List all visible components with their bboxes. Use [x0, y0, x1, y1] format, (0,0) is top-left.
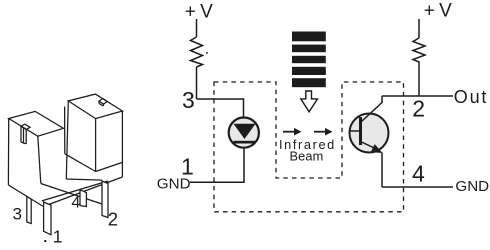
phototransistor Q1 emitter lead: [362, 142, 377, 149]
resistor (right, pull-up): [413, 38, 425, 64]
photointerrupter 3D body: bridge front top edge: [66, 179, 102, 180]
photointerrupter 3D body: polarity notch on right tower top: [99, 99, 107, 106]
hollow down arrow (object moves down): [301, 91, 318, 112]
wire node2 down to collector: [381, 96, 383, 103]
pin 3 of 3D body: [27, 196, 31, 223]
svg-text:Out: Out: [454, 87, 488, 107]
photointerrupter 3D body: body front bottom edge: [41, 184, 102, 205]
LED D1 triangle (anode): [234, 124, 256, 139]
svg-text:3: 3: [182, 87, 195, 113]
wire resistor to node 2 / Out: [418, 64, 420, 96]
svg-text:2: 2: [412, 95, 425, 121]
wire node 4 to GND: [382, 186, 453, 188]
photointerrupter 3D body: left tower front-left vertical edge: [7, 119, 9, 186]
resistor (left, LED current limit): [191, 37, 203, 67]
pin 4 of 3D body: [80, 190, 86, 207]
photointerrupter 3D body: step top front edge: [42, 181, 108, 201]
wire +V to resistor R-left: [196, 19, 198, 37]
dot under pin 1: [44, 240, 46, 242]
photointerrupter 3D body: left tower front-right vertical edge (slot left): [38, 136, 41, 183]
photointerrupter 3D body: step top-left edge: [8, 185, 43, 207]
infrared beam arrow (left): [283, 128, 333, 136]
wire node 2 horizontal to Out: [382, 95, 453, 97]
wire node 3 to LED anode: [197, 99, 244, 124]
photointerrupter 3D body: polarity tab on left tower top: [21, 124, 30, 144]
svg-text:+V: +V: [424, 0, 456, 21]
photointerrupter 3D body: slot back vertical edge: [64, 107, 66, 154]
photointerrupter 3D body: right tower front-left vertical edge: [66, 101, 68, 179]
photointerrupter 3D body: bridge top back edge: [65, 154, 96, 172]
phototransistor Q1 collector lead: [362, 103, 383, 122]
svg-text:2: 2: [108, 209, 118, 230]
phototransistor Q1 emitter arrowhead: [371, 144, 383, 153]
wire emitter down to node 4: [381, 153, 383, 188]
phototransistor Q1 base bar: [359, 117, 362, 145]
phototransistor Q1 circle: [350, 114, 389, 153]
svg-text:4: 4: [412, 161, 425, 187]
wire +V to resistor R-right: [418, 19, 420, 38]
svg-text:+V: +V: [185, 1, 217, 22]
svg-text:4: 4: [71, 194, 80, 211]
dashed sensor outline (U-shape): [214, 82, 404, 212]
photointerrupter 3D body: flange bottom front edge: [43, 177, 122, 207]
LED D1 circle: [229, 118, 259, 148]
interrupter object (stack of black bars): [292, 32, 326, 88]
svg-text:1: 1: [53, 227, 63, 247]
infrared beam arrow (right): [314, 131, 326, 133]
pin 2 of 3D body: [102, 181, 108, 218]
photointerrupter 3D body: right tower front-right vertical edge: [95, 119, 97, 172]
photointerrupter 3D body: left tower top face: [9, 111, 64, 136]
photointerrupter 3D body: lower right front edge: [96, 162, 123, 171]
photointerrupter 3D body: right tower top face: [68, 94, 122, 119]
svg-text:GND: GND: [455, 178, 489, 195]
phototransistor Q1 base lead: [349, 130, 359, 132]
pin 1 of 3D body: [44, 202, 51, 235]
photointerrupter 3D body: right back vertical edge: [121, 111, 123, 177]
svg-text:Beam: Beam: [290, 149, 324, 164]
LED D1 cathode bar: [234, 141, 256, 144]
wire GND to LED cathode: [190, 143, 244, 182]
stray dot near left resistor: [206, 52, 208, 54]
wire resistor to node 3: [196, 67, 198, 99]
svg-text:3: 3: [13, 204, 22, 223]
svg-text:GND: GND: [157, 176, 191, 193]
